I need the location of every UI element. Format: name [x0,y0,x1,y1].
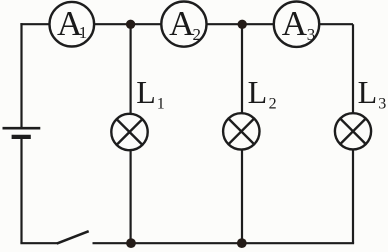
wire left vertical upper [20,23,22,128]
wire top horizontal [20,23,353,25]
lamp L2 [223,113,259,149]
svg-text:2: 2 [269,95,277,112]
wire bottom right segment [93,242,355,244]
svg-text:L: L [136,74,156,110]
label L1 [136,74,165,112]
ammeter A2 [161,2,206,47]
wire bottom left segment [20,242,58,244]
switch S1 blade [57,231,89,243]
node dot bottom 2 [237,238,247,248]
label L3 [358,74,387,112]
wire branch 2 vertical [241,24,243,243]
lamp L1 [111,114,147,150]
battery B1 long plate (+) [3,127,41,130]
node dot top 2 [238,20,247,29]
ammeter A3 [274,2,319,47]
label L2 [248,74,277,112]
svg-text:1: 1 [79,23,88,42]
lamp L3 [335,113,371,149]
svg-text:A: A [169,4,195,43]
wire branch 1 vertical [130,24,132,243]
wire branch 3 right vertical [352,24,354,243]
battery B1 short plate (-) [12,135,31,139]
svg-text:1: 1 [157,95,165,112]
svg-text:L: L [248,74,268,110]
svg-text:L: L [358,74,378,110]
wire left vertical lower [20,137,22,243]
svg-text:3: 3 [307,25,316,44]
ammeter A1 [50,2,95,47]
svg-text:A: A [282,4,308,43]
node dot bottom 1 [126,238,136,248]
svg-text:3: 3 [378,95,386,112]
node dot top 1 [126,20,135,29]
svg-text:2: 2 [192,25,201,44]
